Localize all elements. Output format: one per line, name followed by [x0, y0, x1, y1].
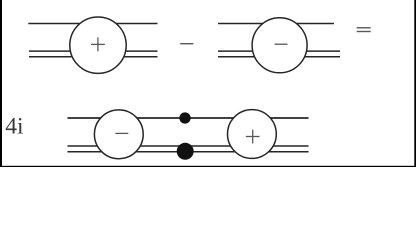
wire: bottom diagram top propagator line — [68, 117, 309, 119]
wire: bottom diagram double line (upper) — [68, 145, 309, 147]
blob B: circle vertex with minus — [252, 18, 307, 73]
svg-text:4i: 4i — [5, 113, 24, 139]
minus symbol inside blob C — [115, 132, 128, 134]
vertex dot on double line — [177, 143, 194, 160]
plus symbol inside blob A — [91, 38, 105, 52]
wire: diagram B lower double line (upper) — [218, 50, 340, 52]
frame: bottom border — [0, 166, 416, 167]
wire: bottom diagram double line (lower) — [68, 151, 309, 153]
blob A: circle vertex with plus — [70, 17, 126, 73]
wire: diagram A lower double line (lower) — [29, 56, 158, 58]
vertex dot on top line — [179, 112, 190, 123]
wire: diagram A lower double line (upper) — [29, 50, 158, 52]
wire: diagram A top propagator line — [28, 23, 157, 25]
wire: diagram B lower double line (lower) — [218, 56, 340, 58]
operator: minus sign between diagrams — [180, 43, 193, 45]
frame: left border — [0, 0, 2, 167]
plus symbol inside blob D — [246, 130, 260, 144]
blob C: left circle vertex with minus — [94, 110, 143, 159]
blob D: right circle vertex with plus — [228, 110, 277, 159]
frame: right border — [414, 0, 416, 167]
wire: diagram B top propagator line — [218, 23, 334, 25]
minus symbol inside blob B — [275, 43, 288, 45]
operator: equals sign — [357, 28, 371, 32]
